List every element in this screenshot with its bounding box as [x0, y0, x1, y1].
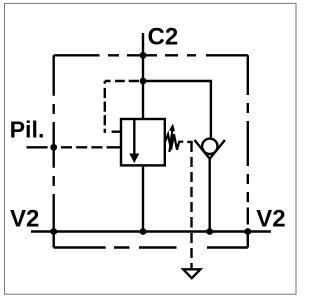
svg-text:C2: C2: [148, 23, 179, 50]
svg-text:V2: V2: [10, 205, 39, 232]
svg-text:V2: V2: [256, 205, 285, 232]
svg-text:Pil.: Pil.: [10, 116, 45, 142]
